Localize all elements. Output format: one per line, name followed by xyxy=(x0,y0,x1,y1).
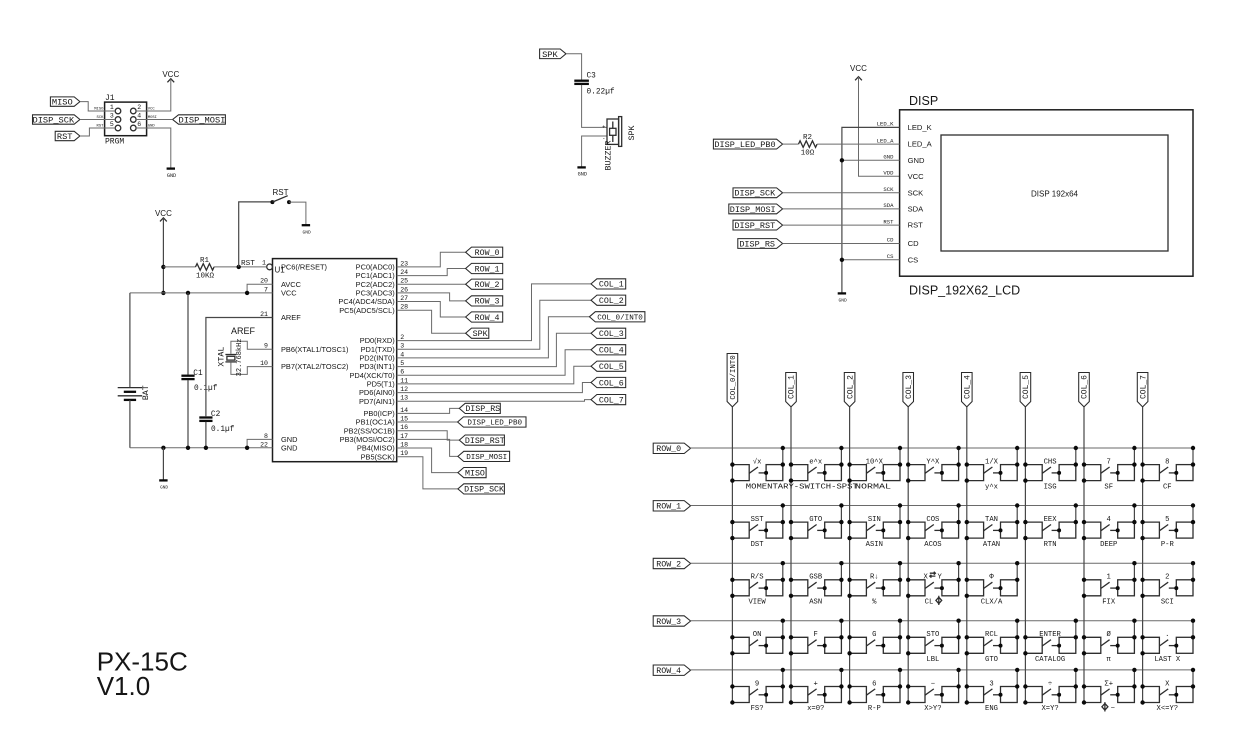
svg-text:PC6(/RESET): PC6(/RESET) xyxy=(281,263,327,272)
svg-text:12: 12 xyxy=(400,386,408,393)
key label Φ (ROW_2/COL_4) xyxy=(989,574,994,582)
key label + (ROW_4/COL_1) xyxy=(814,680,818,688)
global label COL_2 (matrix) xyxy=(844,373,855,407)
svg-text:X<=Y?: X<=Y? xyxy=(1157,705,1179,713)
key switch 3 (ROW_4/COL_4) xyxy=(965,668,1020,705)
svg-text:0.22µf: 0.22µf xyxy=(587,89,615,97)
svg-text:+: + xyxy=(602,123,605,130)
key label GSB (ROW_2/COL_1) xyxy=(809,574,823,582)
junction GND row at C1 xyxy=(186,446,190,450)
global label DISP_SCK (MCU) xyxy=(458,484,505,495)
key label 7 (ROW_0/COL_6) xyxy=(1107,458,1111,466)
svg-text:−: − xyxy=(1111,705,1115,713)
ground symbol (J1) xyxy=(167,169,177,179)
svg-text:DISP_MOSI: DISP_MOSI xyxy=(466,454,507,462)
wire VCC rail down to VCC row xyxy=(162,218,164,293)
svg-text:COL_1: COL_1 xyxy=(599,281,624,290)
buzzer SPK symbol xyxy=(602,117,622,147)
svg-text:16: 16 xyxy=(400,424,408,431)
svg-text:COL_0/INT0: COL_0/INT0 xyxy=(597,314,643,322)
crystal XTAL 32.768kHz xyxy=(217,338,272,376)
wire VCC row to MCU VCC pin7 xyxy=(130,292,273,294)
svg-text:TAN: TAN xyxy=(985,516,998,524)
global label DISP_RST (MCU) xyxy=(459,435,504,446)
wire MCU to SPK xyxy=(397,310,466,333)
key switch TAN (ROW_1/COL_4) xyxy=(965,503,1020,540)
svg-text:C1: C1 xyxy=(193,370,203,378)
key label CHS (ROW_0/COL_5) xyxy=(1044,458,1057,466)
wire MCU to COL_6 xyxy=(397,383,591,393)
global label COL_0/INT0 (matrix) xyxy=(727,354,738,407)
svg-text:DISP_MOSI: DISP_MOSI xyxy=(178,115,225,125)
global label ROW_1 (MCU) xyxy=(466,263,503,274)
wire MCU to COL_4 xyxy=(397,350,591,375)
MCU U1 right pin names xyxy=(338,263,394,462)
key label EEX (ROW_1/COL_5) xyxy=(1044,516,1058,524)
key shifted label X<=Y? (ROW_4/COL_7) xyxy=(1157,705,1179,713)
svg-text:C3: C3 xyxy=(587,73,597,81)
svg-text:11: 11 xyxy=(400,377,408,384)
svg-text:4: 4 xyxy=(400,351,404,358)
svg-text:VCC: VCC xyxy=(162,70,179,79)
svg-text:6: 6 xyxy=(400,369,404,376)
key shifted label P-R (ROW_1/COL_7) xyxy=(1161,541,1175,549)
key label − (ROW_4/COL_3) xyxy=(931,680,935,688)
key label 6 (ROW_4/COL_2) xyxy=(872,680,876,688)
svg-text:SCK: SCK xyxy=(908,188,924,197)
wire reset switch to ground xyxy=(289,202,306,225)
wire MISO to J1 pin1 xyxy=(80,102,115,111)
svg-text:PC4(ADC4/SDA): PC4(ADC4/SDA) xyxy=(338,297,394,306)
title text PX-15C xyxy=(97,647,188,677)
key switch XY (ROW_2/COL_3) xyxy=(906,561,961,598)
key shifted label FS? (ROW_4/COL_0) xyxy=(751,705,764,713)
svg-text:R/S: R/S xyxy=(751,574,764,582)
global label COL_6 (MCU) xyxy=(591,377,626,388)
global label ROW_4 (MCU) xyxy=(466,312,503,323)
key shifted label SF (ROW_0/COL_6) xyxy=(1104,483,1113,491)
connector J1 tiny pin names xyxy=(94,108,157,129)
svg-text:MOMENTARY-SWITCH-SPST: MOMENTARY-SWITCH-SPST xyxy=(746,483,859,491)
wire MCU to COL_7 xyxy=(397,400,591,402)
wire J1 pin2 to VCC xyxy=(136,79,171,111)
svg-text:ROW_0: ROW_0 xyxy=(656,445,681,454)
svg-text:14: 14 xyxy=(400,407,408,414)
wire RST net up to reset switch xyxy=(239,202,273,267)
svg-text:LED_A: LED_A xyxy=(908,140,933,149)
svg-text:PD4(XCK/T0): PD4(XCK/T0) xyxy=(350,371,395,380)
key shifted label SCI (ROW_2/COL_7) xyxy=(1161,599,1174,607)
svg-text:DISP_MOSI: DISP_MOSI xyxy=(730,205,776,215)
wire MCU GND pin8 jog xyxy=(247,439,272,447)
key value text MOMENTARY-SWITCH-SPST (ROW_0) xyxy=(746,483,859,491)
key label Ø (ROW_3/COL_6) xyxy=(1107,630,1112,639)
svg-text:COL_3: COL_3 xyxy=(905,375,914,399)
key shifted label DEEP (ROW_1/COL_6) xyxy=(1100,541,1117,549)
wire COL_7 matrix column line xyxy=(1142,407,1144,703)
svg-text:R-P: R-P xyxy=(868,705,881,713)
global label ROW_3 (MCU) xyxy=(466,296,503,307)
svg-text:X>Y?: X>Y? xyxy=(924,705,941,713)
svg-text:PB2(SS/OC1B): PB2(SS/OC1B) xyxy=(344,426,395,435)
wire ground stem xyxy=(162,448,164,480)
svg-text:DISP_SCK: DISP_SCK xyxy=(464,486,504,495)
ground symbol (buzzer) xyxy=(577,167,587,177)
net label AREF xyxy=(231,326,256,336)
key label 8 (ROW_0/COL_7) xyxy=(1165,458,1169,466)
svg-text:2: 2 xyxy=(137,104,141,111)
key switch 8 (ROW_0/COL_7) xyxy=(1140,446,1195,483)
global label COL_3 (matrix) xyxy=(903,373,914,407)
key switch 9 (ROW_4/COL_0) xyxy=(730,668,785,705)
svg-text:LED_K: LED_K xyxy=(908,123,932,132)
key switch Y^X (ROW_0/COL_3) xyxy=(906,446,961,483)
svg-text:CS: CS xyxy=(908,255,919,264)
key label R/S (ROW_2/COL_0) xyxy=(751,574,764,582)
key label 4 (ROW_1/COL_6) xyxy=(1107,516,1111,524)
svg-text:RCL: RCL xyxy=(985,631,998,639)
svg-text:SPK: SPK xyxy=(628,126,637,141)
svg-text:%: % xyxy=(872,599,877,607)
buzzer value text SPK xyxy=(628,126,637,141)
svg-text:PD7(AIN1): PD7(AIN1) xyxy=(359,397,395,406)
global label DISP_MOSI (MCU) xyxy=(458,451,510,462)
key label 1 (ROW_2/COL_6) xyxy=(1107,574,1111,582)
svg-text:GND: GND xyxy=(167,173,176,179)
svg-text:1: 1 xyxy=(262,259,266,266)
key switch G (ROW_3/COL_2) xyxy=(847,619,902,656)
wire J1 pin6 to GND xyxy=(136,128,171,168)
wire AVCC pin20 jog xyxy=(247,284,272,293)
svg-text:DISP: DISP xyxy=(909,94,938,108)
key shifted label RTN (ROW_1/COL_5) xyxy=(1044,541,1057,549)
svg-text:VCC: VCC xyxy=(850,64,867,73)
svg-text:1: 1 xyxy=(110,104,114,111)
capacitor C1 xyxy=(181,293,217,448)
key switch CHS (ROW_0/COL_5) xyxy=(1023,446,1078,483)
wire VCC to display VDD pin xyxy=(859,77,900,177)
svg-text:÷: ÷ xyxy=(1048,680,1052,688)
svg-text:SCI: SCI xyxy=(1161,599,1174,607)
key label e^x (ROW_0/COL_1) xyxy=(809,457,822,466)
svg-text:ROW_1: ROW_1 xyxy=(656,503,681,512)
svg-text:10: 10 xyxy=(260,360,268,367)
global label COL_0/INT0 (MCU) xyxy=(589,312,645,323)
svg-text:19: 19 xyxy=(400,450,408,457)
svg-text:RST: RST xyxy=(241,260,255,268)
svg-text:GND: GND xyxy=(578,172,587,178)
svg-text:ROW_3: ROW_3 xyxy=(475,298,500,307)
svg-text:GSB: GSB xyxy=(809,574,823,582)
key switch STO (ROW_3/COL_3) xyxy=(906,619,961,656)
key shifted label phi-minus (ROW_4/COL_6) xyxy=(1102,702,1115,713)
svg-text:28: 28 xyxy=(400,304,408,311)
junction display CS pin xyxy=(840,258,844,262)
svg-text:23: 23 xyxy=(400,260,408,267)
svg-text:PD2(INT0): PD2(INT0) xyxy=(359,354,394,363)
key shifted label x=0? (ROW_4/COL_1) xyxy=(807,705,824,713)
wire ROW_1 matrix row line xyxy=(691,505,1193,507)
svg-text:R1: R1 xyxy=(200,257,210,265)
key switch F (ROW_3/COL_1) xyxy=(789,619,844,656)
svg-text:PB6(XTAL1/TOSC1): PB6(XTAL1/TOSC1) xyxy=(281,345,349,354)
key switch EEX (ROW_1/COL_5) xyxy=(1023,503,1078,540)
svg-text:Y: Y xyxy=(938,574,943,582)
svg-text:CATALOG: CATALOG xyxy=(1035,656,1065,664)
global label MISO xyxy=(50,97,80,108)
key switch RCL (ROW_3/COL_4) xyxy=(965,619,1020,656)
key shifted label GTO (ROW_3/COL_4) xyxy=(985,656,998,664)
key shifted label LAST X (ROW_3/COL_7) xyxy=(1154,656,1181,664)
key shifted label ATAN (ROW_1/COL_4) xyxy=(983,541,1000,549)
key switch Φ (ROW_2/COL_4) xyxy=(965,561,1020,598)
wire ROW_0 matrix row line xyxy=(691,447,1193,449)
svg-text:32.768kHz: 32.768kHz xyxy=(236,338,244,376)
global label MISO (MCU) xyxy=(458,468,486,479)
wire DISP_SCK to display xyxy=(783,192,900,194)
svg-text:4: 4 xyxy=(1107,516,1111,524)
junction display GND pin xyxy=(840,158,844,162)
svg-text:AREF: AREF xyxy=(231,326,256,336)
global label COL_7 (matrix) xyxy=(1137,373,1148,407)
svg-text:COL_6: COL_6 xyxy=(599,379,624,388)
wire MCU to DISP_MOSI xyxy=(397,439,458,456)
key label √x (ROW_0/COL_0) xyxy=(753,457,762,466)
svg-text:DISP_SCK: DISP_SCK xyxy=(734,189,776,199)
svg-text:13: 13 xyxy=(400,395,408,402)
svg-text:MISO: MISO xyxy=(465,469,485,478)
svg-text:MISO: MISO xyxy=(52,98,73,108)
key switch + (ROW_4/COL_1) xyxy=(789,668,844,705)
key label Σ+ (ROW_4/COL_6) xyxy=(1104,680,1113,688)
wire MCU to COL_3 xyxy=(397,333,591,366)
svg-text:DST: DST xyxy=(751,541,765,549)
svg-text:GND: GND xyxy=(883,154,894,161)
svg-text:PB1(OC1A): PB1(OC1A) xyxy=(356,418,395,427)
svg-text:RST: RST xyxy=(273,188,289,197)
svg-text:LAST X: LAST X xyxy=(1154,656,1181,664)
svg-text:5: 5 xyxy=(110,121,114,128)
key label 5 (ROW_1/COL_7) xyxy=(1165,516,1169,524)
svg-text:COL_2: COL_2 xyxy=(846,375,855,399)
global label DISP_LED_PB0 (display) xyxy=(713,139,782,150)
key shifted label ASIN (ROW_1/COL_2) xyxy=(866,541,883,549)
global label ROW_3 (matrix) xyxy=(653,616,690,627)
net label RST at MCU pin1 xyxy=(241,260,255,268)
svg-text:26: 26 xyxy=(400,286,408,293)
global label DISP_SCK (J1) xyxy=(32,115,79,126)
svg-text:π: π xyxy=(1107,656,1112,664)
global label DISP_MOSI (display) xyxy=(729,204,783,215)
wire COL_4 matrix column line xyxy=(966,407,968,703)
svg-text:6: 6 xyxy=(872,680,876,688)
svg-text:COL_4: COL_4 xyxy=(599,347,624,356)
ground symbol (display) xyxy=(838,293,847,303)
svg-text:VCC: VCC xyxy=(908,172,925,181)
wire AREF pin21 to C2 xyxy=(206,318,273,417)
svg-text:4: 4 xyxy=(137,113,141,120)
svg-text:9: 9 xyxy=(755,680,759,688)
MCU U1 pin 1 inverting bubble xyxy=(267,264,273,270)
svg-text:VCC: VCC xyxy=(155,209,172,218)
svg-text:DISP_RS: DISP_RS xyxy=(739,239,775,249)
connector J1 pin numbers 1-6 xyxy=(110,104,141,128)
svg-text:SST: SST xyxy=(751,516,765,524)
global label COL_3 (MCU) xyxy=(591,328,626,339)
svg-text:DISP_LED_PB0: DISP_LED_PB0 xyxy=(714,140,775,150)
svg-text:GND: GND xyxy=(302,230,311,236)
key value text NORMAL overlay (ROW_0) xyxy=(855,483,891,491)
key switch 10^X (ROW_0/COL_2) xyxy=(847,446,902,483)
key label F (ROW_3/COL_1) xyxy=(814,631,818,639)
svg-text:ENTER: ENTER xyxy=(1039,631,1061,639)
svg-text:PB5(SCK): PB5(SCK) xyxy=(361,452,395,461)
svg-text:6: 6 xyxy=(137,121,141,128)
svg-text:SPK: SPK xyxy=(542,50,558,60)
global label DISP_RS (MCU) xyxy=(459,403,500,414)
key label GTO (ROW_1/COL_1) xyxy=(809,516,822,524)
wire COL_0/INT0 matrix column line xyxy=(731,407,733,703)
svg-text:3: 3 xyxy=(400,343,404,350)
power symbol VCC (display) xyxy=(850,64,867,80)
svg-text:ATAN: ATAN xyxy=(983,541,1000,549)
svg-text:RST: RST xyxy=(883,218,894,225)
svg-text:GND: GND xyxy=(908,156,925,165)
key switch ENTER (ROW_3/COL_5) xyxy=(1023,619,1078,656)
key shifted label ASN (ROW_2/COL_1) xyxy=(809,599,822,607)
key shifted label LBL (ROW_3/COL_3) xyxy=(926,656,939,664)
svg-text:FIX: FIX xyxy=(1102,599,1116,607)
svg-text:ENG: ENG xyxy=(985,705,998,713)
svg-text:ASIN: ASIN xyxy=(866,541,883,549)
svg-text:PC2(ADC2): PC2(ADC2) xyxy=(356,280,395,289)
global label COL_1 (matrix) xyxy=(786,373,797,407)
svg-text:3: 3 xyxy=(110,113,114,120)
wire MCU to COL_2 xyxy=(397,300,591,349)
wire C3 to buzzer plus xyxy=(582,85,607,128)
resistor R1 10KΩ xyxy=(163,257,266,280)
svg-text:ROW_0: ROW_0 xyxy=(475,249,500,258)
junction GND row at ground stem xyxy=(161,446,165,450)
key label SIN (ROW_1/COL_2) xyxy=(868,516,881,524)
svg-text:10Ω: 10Ω xyxy=(801,150,815,158)
svg-text:ROW_3: ROW_3 xyxy=(656,618,681,627)
svg-text:7: 7 xyxy=(1107,458,1111,466)
svg-text:COL_2: COL_2 xyxy=(599,297,624,306)
svg-text:24: 24 xyxy=(400,269,408,276)
ground symbol (reset switch) xyxy=(302,225,311,235)
svg-text:X: X xyxy=(924,574,929,582)
svg-text:ROW_2: ROW_2 xyxy=(475,281,500,290)
wire ROW_3 matrix row line xyxy=(691,620,1193,622)
key switch SIN (ROW_1/COL_2) xyxy=(847,503,902,540)
MCU U1 right pin numbers xyxy=(400,260,408,457)
key label SST (ROW_1/COL_0) xyxy=(751,516,765,524)
svg-text:P-R: P-R xyxy=(1161,541,1175,549)
key shifted label R-P (ROW_4/COL_2) xyxy=(868,705,881,713)
svg-text:COS: COS xyxy=(926,516,939,524)
svg-text:COL_7: COL_7 xyxy=(599,396,624,405)
key switch 1/X (ROW_0/COL_4) xyxy=(965,446,1020,483)
svg-text:1/X: 1/X xyxy=(985,458,999,466)
key switch GTO (ROW_1/COL_1) xyxy=(789,503,844,540)
svg-text:COL_0/INT0: COL_0/INT0 xyxy=(730,355,738,399)
wire COL_5 matrix column line xyxy=(1024,407,1026,703)
connector J1 pin circles xyxy=(115,108,136,131)
global label COL_1 (MCU) xyxy=(591,279,626,290)
wire MCU to DISP_RS xyxy=(397,408,460,413)
key label 9 (ROW_4/COL_0) xyxy=(755,680,759,688)
global label ROW_0 (matrix) xyxy=(653,443,690,454)
global label ROW_1 (matrix) xyxy=(653,501,690,512)
global label ROW_0 (MCU) xyxy=(466,247,503,258)
display module DISP box xyxy=(900,94,1193,298)
svg-text:F: F xyxy=(814,631,818,639)
connector J1 PRGM box xyxy=(105,94,147,146)
junction GND row at C2 xyxy=(204,446,208,450)
key shifted label FIX (ROW_2/COL_6) xyxy=(1102,599,1116,607)
svg-text:25: 25 xyxy=(400,278,408,285)
svg-text:DISP_RST: DISP_RST xyxy=(465,437,505,446)
key shifted label ISG (ROW_0/COL_5) xyxy=(1044,483,1057,491)
battery BAT xyxy=(118,293,151,448)
global label ROW_4 (matrix) xyxy=(653,665,690,676)
svg-text:ACOS: ACOS xyxy=(924,541,941,549)
key label RCL (ROW_3/COL_4) xyxy=(985,631,998,639)
wire DISP_MOSI to display SDA xyxy=(783,208,900,210)
svg-text:21: 21 xyxy=(260,311,268,318)
wire MCU to DISP_LED_PB0 xyxy=(397,421,458,423)
svg-text:SDA: SDA xyxy=(883,202,894,209)
svg-text:VIEW: VIEW xyxy=(748,599,766,607)
key label TAN (ROW_1/COL_4) xyxy=(985,516,998,524)
svg-text:8: 8 xyxy=(264,433,268,440)
svg-text:COL_5: COL_5 xyxy=(599,363,624,372)
svg-text:GTO: GTO xyxy=(985,656,998,664)
svg-text:10KΩ: 10KΩ xyxy=(196,272,215,280)
svg-text:CS: CS xyxy=(887,253,894,260)
svg-text:COL_6: COL_6 xyxy=(1081,375,1090,399)
svg-text:Σ+: Σ+ xyxy=(1104,680,1113,688)
wire COL_6 matrix column line xyxy=(1083,407,1085,703)
svg-text:8: 8 xyxy=(1165,458,1169,466)
wire COL_2 matrix column line xyxy=(849,407,851,703)
key switch Ø (ROW_3/COL_6) xyxy=(1082,619,1137,656)
MCU U1 left pin names xyxy=(281,263,349,453)
key label STO (ROW_3/COL_3) xyxy=(926,631,939,639)
wire MCU to ROW_3 xyxy=(397,293,466,301)
key label ENTER (ROW_3/COL_5) xyxy=(1039,631,1061,639)
display pin labels (outside) xyxy=(877,121,894,260)
svg-text:PC5(ADC5/SCL): PC5(ADC5/SCL) xyxy=(339,306,394,315)
key label 1/X (ROW_0/COL_4) xyxy=(985,458,999,466)
key shifted label π (ROW_3/COL_6) xyxy=(1107,656,1112,664)
display screen rectangle DISP 192x64 xyxy=(941,135,1168,251)
wire SPK to C3 xyxy=(566,54,582,80)
global label DISP_SCK (display) xyxy=(733,188,783,199)
global label COL_4 (MCU) xyxy=(591,345,626,356)
global label DISP_MOSI (J1) xyxy=(173,115,226,126)
global label COL_2 (MCU) xyxy=(591,295,626,306)
svg-text:y^x: y^x xyxy=(985,482,998,491)
key label X (ROW_4/COL_7) xyxy=(1165,680,1170,688)
svg-text:DISP_192X62_LCD: DISP_192X62_LCD xyxy=(909,284,1020,298)
svg-text:VCC: VCC xyxy=(281,289,297,298)
svg-text:15: 15 xyxy=(400,415,408,422)
key label ÷ (ROW_4/COL_5) xyxy=(1048,680,1052,688)
wire MCU to ROW_1 xyxy=(397,269,466,276)
svg-text:PB4(MISO): PB4(MISO) xyxy=(357,444,395,453)
